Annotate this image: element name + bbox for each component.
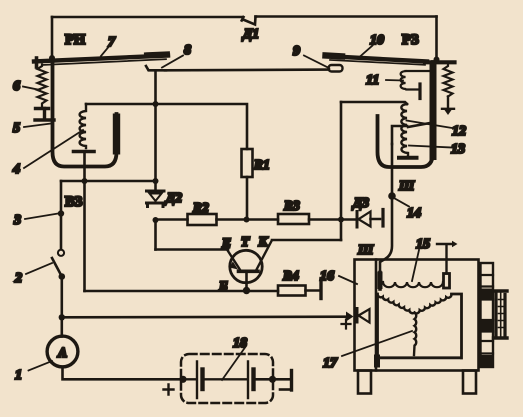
wire top frame left segment bbox=[52, 16, 243, 19]
relay РЗ spring bbox=[444, 64, 453, 97]
transistor base lead bbox=[245, 271, 248, 290]
wire Д2 junction down to emitter wire bbox=[154, 220, 157, 250]
switch 2 lower terminal dot bbox=[59, 273, 66, 280]
label 14 leader bbox=[394, 198, 409, 207]
svg-text:ВЗ: ВЗ bbox=[65, 194, 83, 210]
resistor R4 bbox=[278, 286, 306, 296]
battery dashed box (18) bbox=[181, 354, 273, 403]
label 11 leader bbox=[386, 79, 403, 82]
wire R4 to terminal bbox=[306, 289, 320, 292]
junction bus / Д2 vertical bbox=[153, 178, 159, 184]
svg-text:2: 2 bbox=[14, 271, 22, 286]
label 15 leader bbox=[412, 250, 419, 281]
svg-text:R3: R3 bbox=[283, 198, 300, 213]
wire collector vertical bbox=[340, 102, 343, 240]
battery cell 1 bbox=[183, 362, 197, 399]
wire from РН coil bottom down through yoke bbox=[83, 153, 86, 181]
wire Ш vertical from series box bbox=[380, 144, 392, 272]
svg-text:R1: R1 bbox=[253, 157, 270, 172]
transistor emitter lead bbox=[227, 250, 241, 271]
label 17 leader bbox=[342, 331, 412, 356]
node Ш junction dot bbox=[388, 192, 396, 200]
wire emitter horizontal bbox=[156, 248, 229, 251]
battery cell 2 bbox=[205, 362, 248, 399]
label 9 leader bbox=[304, 56, 329, 69]
svg-text:6: 6 bbox=[13, 79, 20, 94]
field winding ground arrow bbox=[437, 244, 453, 274]
generator rectifier diode triangle bbox=[359, 309, 370, 323]
label 13 leader bbox=[409, 146, 452, 148]
wire base bus bbox=[85, 290, 279, 293]
relay РЗ series winding box (12) bbox=[392, 123, 430, 144]
transistor emitter arrow bbox=[230, 261, 238, 269]
wire collector horizontal bbox=[272, 239, 341, 242]
svg-text:13: 13 bbox=[451, 142, 465, 157]
svg-text:17: 17 bbox=[323, 356, 338, 371]
junction R1/R2/R3 bbox=[244, 217, 250, 223]
svg-text:4: 4 bbox=[12, 162, 20, 177]
label 6 leader bbox=[23, 87, 40, 91]
fuse break Д1 on top wire bbox=[242, 17, 256, 25]
svg-text:11: 11 bbox=[366, 73, 379, 88]
junction frame and armature bbox=[49, 55, 55, 61]
label 12 leader bbox=[407, 121, 453, 129]
junction ammeter branch bbox=[59, 314, 65, 320]
diode Д3 cathode bar bbox=[356, 212, 359, 228]
svg-text:R2: R2 bbox=[192, 200, 209, 215]
relay РН spring anchor bbox=[35, 109, 54, 121]
generator rectifier diode bar bbox=[356, 309, 359, 323]
generator brush box divider bbox=[375, 260, 378, 371]
generator rear stack bbox=[481, 263, 494, 367]
relay РН fixed contact (8) bbox=[146, 66, 166, 70]
relay РЗ shunt coil (13) bbox=[401, 104, 408, 155]
svg-text:16: 16 bbox=[320, 269, 334, 284]
relay РЗ yoke bbox=[378, 62, 434, 167]
relay РЗ spring adjuster arrow bbox=[445, 110, 452, 115]
label 5 leader bbox=[24, 124, 51, 128]
junction Д2 bottom / R2 bbox=[153, 217, 159, 223]
diode Д2 bbox=[147, 190, 165, 193]
wire battery minus to ground bar bbox=[256, 378, 290, 381]
resistor R2 bbox=[188, 214, 217, 225]
junction base bbox=[243, 287, 250, 294]
svg-text:Д2: Д2 bbox=[164, 190, 182, 205]
wire R3 to Д3 bbox=[309, 218, 356, 221]
wire R1 bottom to R2/R3 junction bbox=[246, 177, 249, 220]
wire right frame vertical bbox=[435, 17, 438, 62]
stator winding (17) left phase bbox=[377, 294, 414, 313]
stator winding center phase bbox=[414, 313, 416, 356]
svg-text:Д1: Д1 bbox=[241, 26, 259, 41]
generator feed arrow dot bbox=[346, 312, 354, 322]
junction at contact-8 wire and coil wire bbox=[153, 101, 159, 107]
label minus battery bbox=[280, 388, 289, 391]
svg-text:РЗ: РЗ bbox=[402, 32, 419, 48]
junction ВЗ leader point bbox=[58, 210, 64, 216]
stator frame bbox=[378, 294, 462, 358]
junction frame and РЗ armature bbox=[434, 57, 440, 63]
field winding right bar bbox=[444, 274, 450, 289]
transistor T circle bbox=[230, 250, 262, 282]
svg-text:14: 14 bbox=[407, 206, 421, 221]
junction R3/collector vertical bbox=[338, 217, 344, 223]
junction battery minus bbox=[269, 376, 276, 383]
relay РН armature lower edge line bbox=[42, 59, 166, 65]
label 4 leader bbox=[24, 130, 83, 168]
svg-text:РН: РН bbox=[65, 32, 86, 48]
wire РН coil top to R1 bbox=[86, 104, 247, 149]
transistor base bar bbox=[239, 269, 259, 273]
svg-text:10: 10 bbox=[370, 33, 384, 48]
svg-text:Ш: Ш bbox=[357, 242, 374, 257]
relay РЗ spring adjuster bbox=[442, 97, 454, 109]
relay РЗ moving contact blob bbox=[326, 52, 343, 59]
wire junction to ammeter bbox=[60, 317, 63, 336]
wire left column upper bbox=[60, 181, 63, 250]
svg-text:Т: Т bbox=[241, 234, 250, 249]
relay РН yoke bbox=[53, 63, 117, 167]
ammeter А (1) bbox=[47, 336, 78, 367]
generator foot right bbox=[463, 371, 476, 394]
field winding left bar bbox=[378, 273, 382, 290]
svg-text:3: 3 bbox=[13, 213, 21, 228]
svg-text:7: 7 bbox=[108, 35, 116, 50]
relay РН coil (4) bbox=[80, 104, 86, 148]
svg-text:12: 12 bbox=[452, 124, 466, 139]
relay РН core bar bbox=[113, 114, 120, 155]
svg-text:9: 9 bbox=[293, 44, 300, 59]
switch 2 blade bbox=[52, 258, 62, 277]
label 10 leader bbox=[360, 46, 373, 57]
relay РН spring lower bar bbox=[36, 107, 49, 110]
relay РН coil bottom bar bbox=[74, 150, 95, 154]
svg-text:8: 8 bbox=[184, 43, 191, 58]
label plus battery bbox=[164, 385, 174, 395]
relay РЗ fixed contact (9) bbox=[329, 65, 343, 72]
battery ground terminal bar bbox=[290, 371, 293, 391]
generator rear stack dark cells bbox=[482, 289, 493, 299]
svg-text:1: 1 bbox=[15, 368, 22, 383]
terminal bar after R4 bbox=[319, 279, 322, 299]
relay РН moving contact blob bbox=[147, 51, 167, 58]
wire R2 to junction bbox=[217, 218, 279, 221]
resistor R1 bbox=[242, 149, 253, 177]
relay РЗ pivot bar bbox=[425, 60, 455, 64]
switch 2 upper terminal circle bbox=[58, 250, 64, 256]
label 8 leader bbox=[162, 56, 183, 68]
svg-text:К: К bbox=[258, 234, 269, 249]
wire component 11 top bbox=[406, 70, 434, 72]
label 1 leader bbox=[29, 361, 53, 371]
wire contact bus between relays bbox=[165, 68, 329, 71]
resistor R3 bbox=[278, 214, 309, 224]
generator pulley flanges bbox=[494, 291, 508, 338]
label 2 leader bbox=[26, 263, 52, 274]
transistor collector lead bbox=[256, 241, 272, 271]
junction coil wire / supply bus bbox=[82, 178, 88, 184]
svg-text:15: 15 bbox=[416, 237, 430, 252]
relay РЗ core bar bbox=[430, 62, 437, 160]
stator winding right phase bbox=[414, 295, 451, 314]
generator foot left bbox=[358, 371, 371, 394]
wire to generator plus bbox=[62, 315, 348, 318]
svg-text:Е: Е bbox=[221, 236, 231, 251]
svg-text:Д3: Д3 bbox=[351, 195, 369, 210]
wire from fixed contact 8 down bbox=[154, 71, 157, 189]
label plus generator bbox=[342, 320, 351, 329]
wire top frame right segment bbox=[256, 15, 437, 18]
label 7 leader bbox=[101, 47, 109, 56]
label 18 leader bbox=[222, 348, 245, 381]
wire switch to junction bbox=[60, 277, 63, 318]
generator brush upper bbox=[378, 272, 383, 290]
wire Д2 junction to R2 bbox=[156, 218, 188, 221]
label 16 leader bbox=[339, 276, 357, 284]
field winding (15) bbox=[383, 282, 443, 287]
wire РЗ coil top from collector vertical bbox=[341, 102, 407, 104]
component 11 contact bar bbox=[418, 84, 421, 99]
relay РН armature end tab bbox=[35, 58, 39, 67]
svg-text:18: 18 bbox=[233, 336, 247, 351]
label 3 leader bbox=[25, 214, 58, 220]
generator pulley body bbox=[496, 293, 505, 338]
junction battery plus bbox=[179, 376, 186, 383]
svg-text:А: А bbox=[57, 345, 67, 360]
relay РН armature (7) bbox=[34, 56, 168, 62]
relay РЗ coil bottom bar bbox=[399, 156, 417, 160]
wire РН coil bottom long vertical bbox=[83, 181, 86, 291]
generator housing (16) bbox=[355, 260, 479, 371]
component 11 holder coil bbox=[401, 71, 419, 90]
relay РН spring (6) bbox=[38, 65, 47, 107]
wire left frame vertical bbox=[51, 17, 54, 63]
svg-text:Ш: Ш bbox=[398, 178, 415, 193]
relay РЗ armature (10) bbox=[325, 56, 427, 62]
generator brush lower bbox=[374, 355, 380, 368]
svg-text:5: 5 bbox=[13, 121, 20, 136]
diode Д3 triangle bbox=[359, 212, 371, 227]
svg-text:R4: R4 bbox=[282, 268, 299, 283]
wire supply bus y181 bbox=[61, 180, 156, 183]
generator pulley belt lines bbox=[500, 293, 502, 336]
wire ammeter to bottom bus bbox=[63, 367, 184, 380]
relay РЗ armature lower edge line bbox=[330, 60, 425, 65]
diode Д3 wire and terminal bar bbox=[371, 210, 384, 227]
